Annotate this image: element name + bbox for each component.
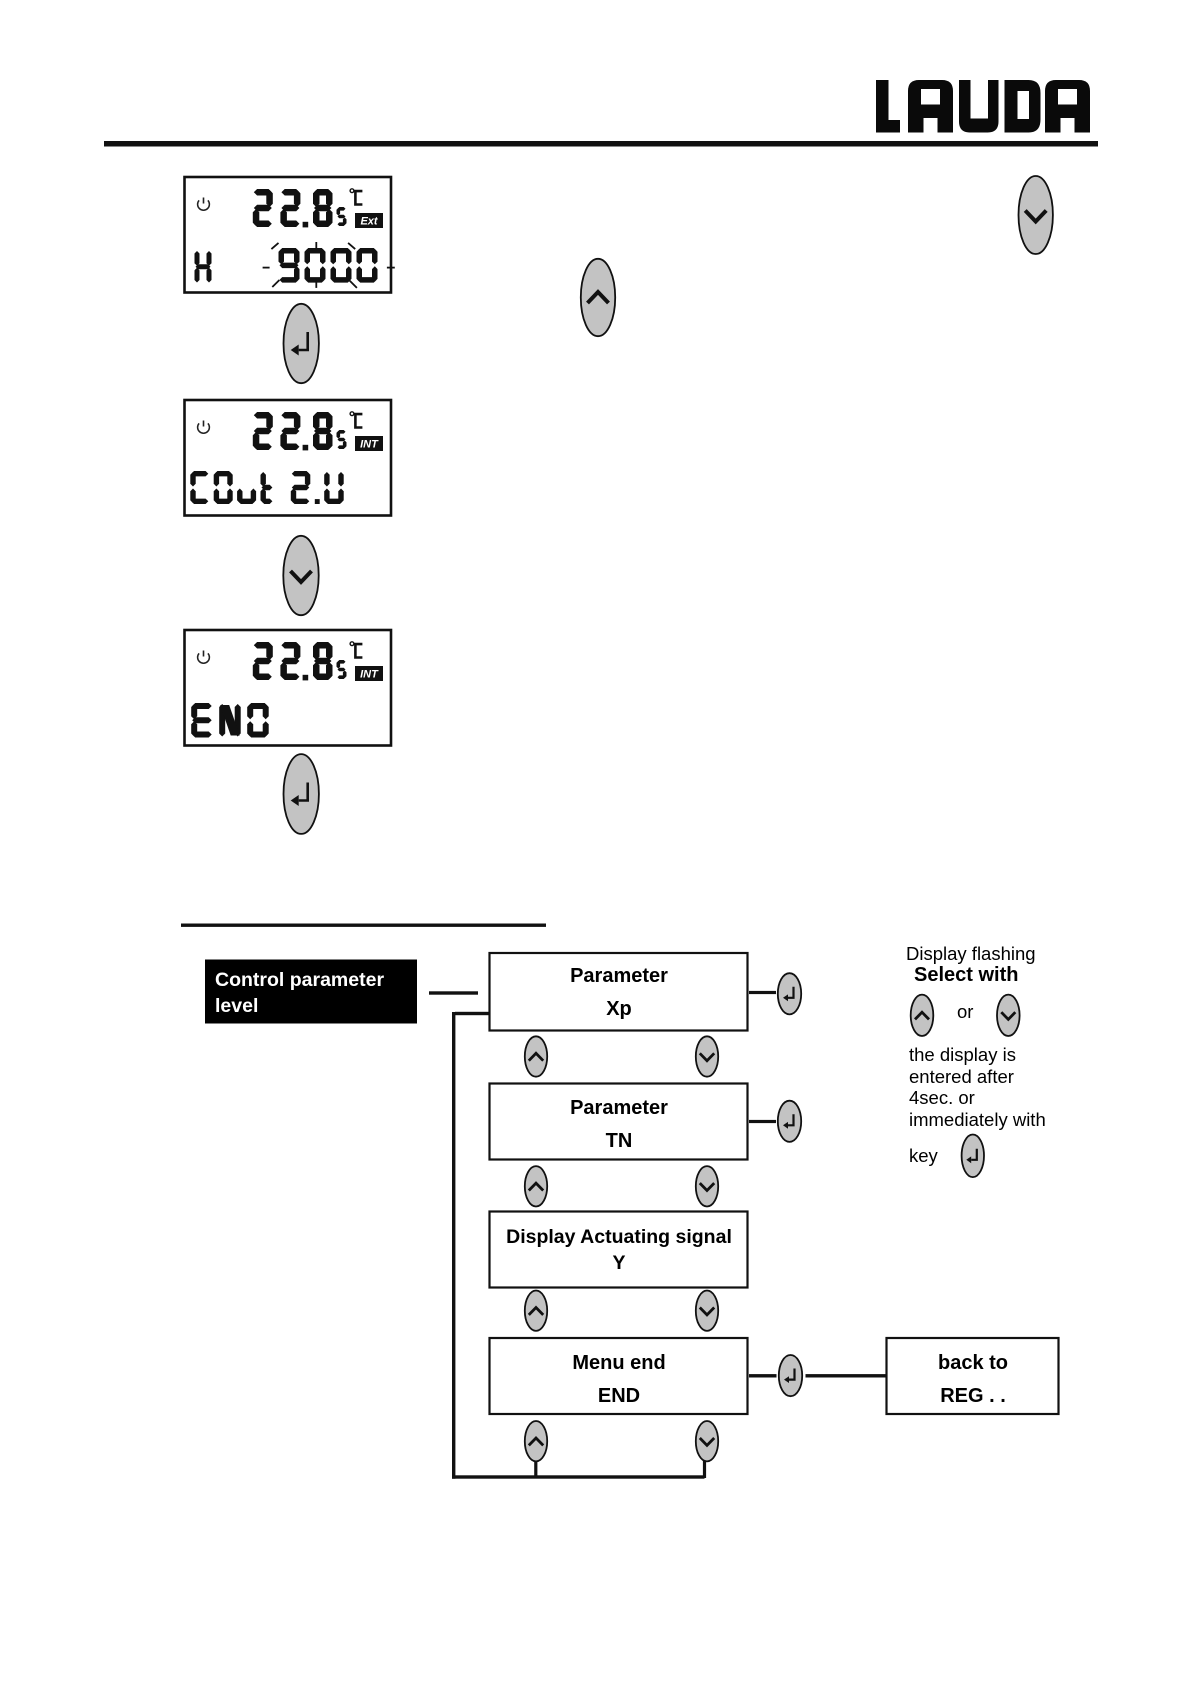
svg-text:Ext: Ext bbox=[360, 216, 378, 228]
svg-text:INT: INT bbox=[360, 439, 379, 451]
svg-text:INT: INT bbox=[360, 669, 379, 681]
